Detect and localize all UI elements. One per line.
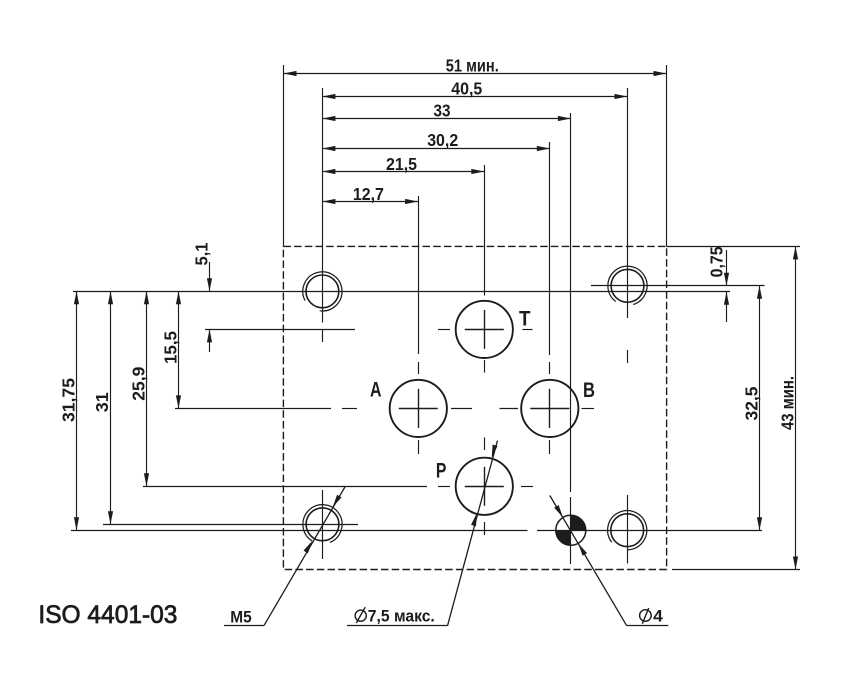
svg-text:31: 31: [92, 392, 112, 412]
extension line: pin hole column x=570.6: [570, 113, 572, 564]
svg-text:15,5: 15,5: [161, 331, 181, 364]
dimension 43 мин.: [777, 246, 798, 569]
centerline: port B column: [549, 142, 551, 454]
svg-text:32,5: 32,5: [742, 386, 762, 420]
label Ø7,5 макс.: [355, 607, 435, 626]
extension line: plate left edge up: [283, 65, 285, 246]
svg-text:51 мин.: 51 мин.: [446, 55, 499, 75]
centerline: port P axis: [143, 486, 533, 488]
dimension 30,2: [322, 130, 549, 151]
label port A: [370, 377, 382, 401]
leader Ø4 callout: [550, 496, 669, 626]
dimension 5,1 (outside arrows): [192, 242, 213, 352]
svg-text:7,5 макс.: 7,5 макс.: [368, 607, 435, 626]
locating pin hole D4 (quadrant-filled): [556, 515, 586, 545]
centerline: port A column: [418, 196, 420, 454]
dimension 31: [92, 291, 113, 524]
extension line: left mounting-holes axis y=290: [73, 291, 730, 293]
label Ø4: [640, 607, 664, 626]
svg-text:ISO 4401-03: ISO 4401-03: [38, 601, 177, 629]
leader M5 callout: [224, 486, 346, 626]
svg-text:25,9: 25,9: [129, 366, 149, 400]
svg-text:40,5: 40,5: [451, 78, 482, 98]
svg-text:21,5: 21,5: [386, 154, 417, 174]
svg-text:4: 4: [653, 607, 664, 626]
label port P: [436, 458, 447, 482]
mounting hole M5 top-right: [608, 266, 647, 304]
svg-text:P: P: [436, 458, 447, 482]
port T: [456, 301, 513, 358]
svg-text:B: B: [583, 378, 595, 402]
svg-text:0,75: 0,75: [707, 246, 727, 277]
extension line: plate right edge up: [666, 65, 668, 246]
dimension 40,5: [322, 78, 627, 99]
svg-text:5,1: 5,1: [192, 242, 212, 265]
svg-text:12,7: 12,7: [353, 184, 384, 204]
port A: [390, 380, 447, 437]
svg-text:30,2: 30,2: [427, 130, 458, 150]
label M5: [230, 608, 251, 626]
plate outline (dashed mounting surface): [283, 246, 666, 569]
mounting hole M5 bottom-left: [303, 505, 342, 543]
centerline: left holes column x=321.5: [322, 88, 324, 559]
extension line: bottom-right holes axis y=530: [71, 530, 762, 532]
mounting hole M5 bottom-right: [608, 511, 647, 550]
extension line: plate bottom edge to 43-dim: [672, 569, 800, 571]
dimension 25,9: [129, 291, 150, 486]
extension line: port T axis: [205, 329, 533, 331]
extension line: right mounting-holes axis y=285: [591, 285, 765, 287]
centerline: right holes column x=627.5: [627, 88, 629, 564]
centerline: ports T/P column: [484, 165, 486, 535]
dimension 12,7: [322, 184, 418, 204]
port B: [521, 380, 578, 437]
mounting hole M5 top-left: [303, 272, 342, 311]
label port T: [519, 307, 531, 331]
centerline: ports A-B axis: [175, 408, 594, 410]
label port B: [583, 378, 595, 402]
title ISO 4401-03: [38, 601, 177, 629]
dimension 32,5: [742, 286, 762, 530]
svg-text:A: A: [370, 377, 382, 401]
extension line: bottom-left hole axis y=524: [103, 524, 358, 526]
leader Ø7,5 callout: [347, 441, 498, 626]
port P: [456, 458, 513, 515]
svg-text:31,75: 31,75: [59, 378, 79, 422]
dimension 51 мин.: [284, 55, 667, 76]
dimension 15,5: [161, 291, 182, 408]
dimension 33: [322, 100, 571, 121]
extension line: plate top edge to 43-dim: [667, 246, 801, 248]
dimension 31,75: [59, 291, 80, 530]
svg-text:M5: M5: [230, 608, 251, 626]
svg-text:43 мин.: 43 мин.: [777, 376, 797, 430]
dimension 0,75 (outside arrows): [707, 246, 730, 322]
svg-text:T: T: [519, 307, 531, 331]
svg-text:33: 33: [434, 100, 451, 120]
dimension 21,5: [322, 154, 484, 174]
